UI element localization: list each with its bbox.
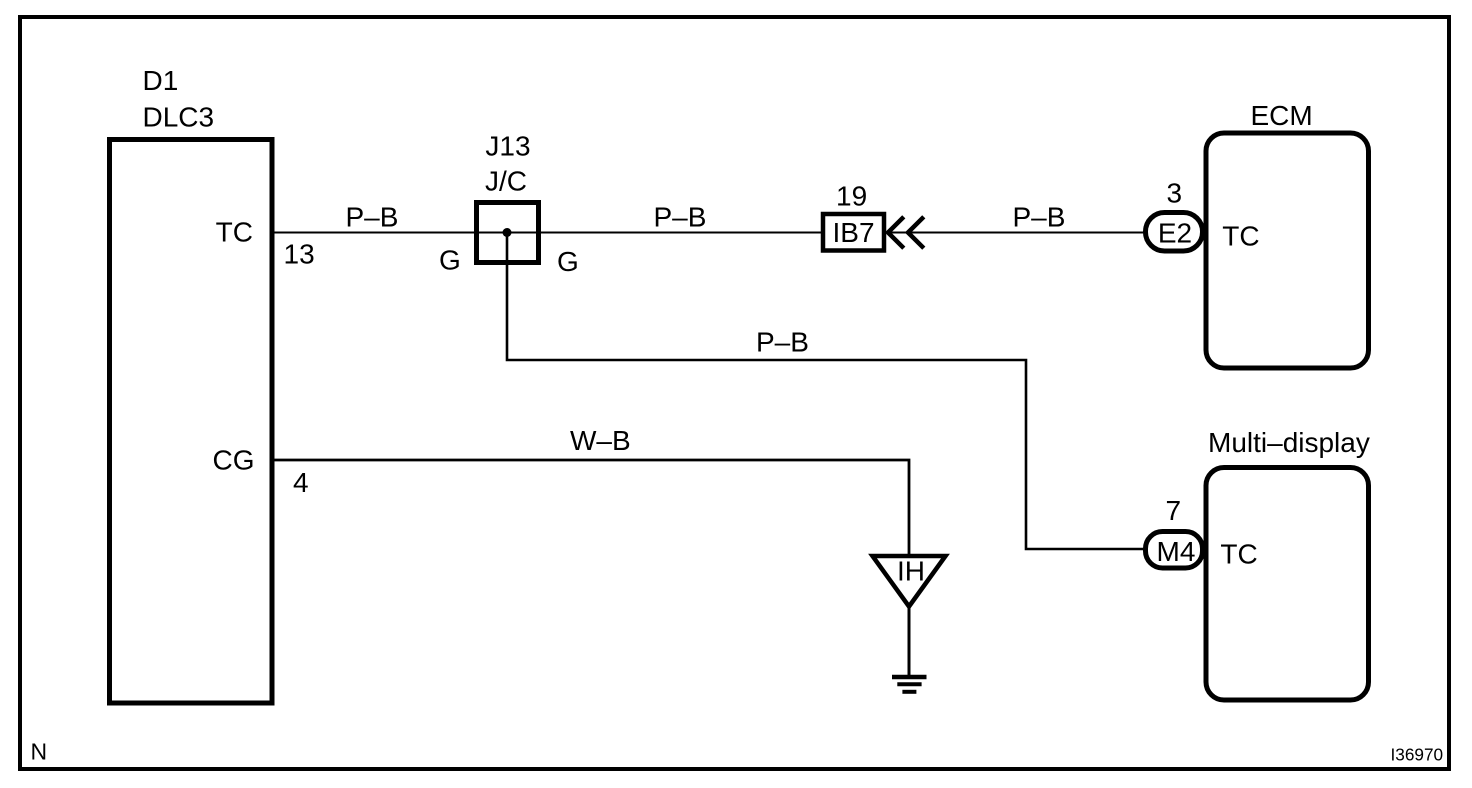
ground symbol (892, 677, 927, 692)
connector D1 DLC3 (110, 140, 273, 704)
chevron arrow 2 (908, 217, 924, 248)
svg-text:G: G (439, 245, 461, 276)
connector M4 (1146, 532, 1203, 569)
junction connector J13 J/C (477, 203, 539, 263)
svg-text:3: 3 (1167, 178, 1183, 209)
connector IB7 (823, 214, 884, 251)
junction dot node (503, 228, 512, 237)
ground triangle IH (873, 556, 946, 607)
chevron arrow 1 (888, 217, 904, 248)
svg-text:7: 7 (1166, 495, 1182, 526)
svg-text:IH: IH (897, 556, 925, 587)
svg-text:TC: TC (216, 217, 253, 248)
svg-text:Multi–display: Multi–display (1208, 427, 1370, 458)
svg-text:TC: TC (1222, 221, 1259, 252)
svg-text:M4: M4 (1157, 536, 1196, 567)
svg-text:DLC3: DLC3 (143, 102, 215, 133)
svg-text:ECM: ECM (1251, 100, 1313, 131)
svg-text:P–B: P–B (346, 201, 399, 232)
svg-text:P–B: P–B (1013, 202, 1066, 233)
svg-text:CG: CG (213, 445, 255, 476)
svg-text:P–B: P–B (654, 202, 707, 233)
wire triangle to ground (908, 607, 911, 678)
svg-text:D1: D1 (143, 65, 179, 96)
ECM box (1206, 133, 1369, 368)
svg-text:I36970: I36970 (1391, 745, 1444, 765)
wire TC to E2 (net TC, P-B) (272, 232, 1146, 234)
connector E2 (1146, 213, 1203, 252)
svg-text:TC: TC (1220, 539, 1257, 570)
svg-text:W–B: W–B (570, 425, 631, 456)
svg-text:E2: E2 (1158, 218, 1192, 249)
wire CG to ground (W-B) (272, 460, 909, 556)
svg-text:P–B: P–B (756, 327, 809, 358)
svg-text:J/C: J/C (485, 166, 527, 197)
svg-text:IB7: IB7 (832, 217, 874, 248)
Multi-display box (1206, 468, 1369, 701)
svg-text:N: N (31, 739, 48, 765)
svg-text:J13: J13 (485, 131, 530, 162)
wire J13 to M4 (P-B) (507, 234, 1144, 549)
svg-text:4: 4 (293, 467, 309, 498)
svg-text:G: G (557, 246, 579, 277)
svg-text:13: 13 (284, 239, 315, 270)
svg-text:19: 19 (836, 181, 867, 212)
